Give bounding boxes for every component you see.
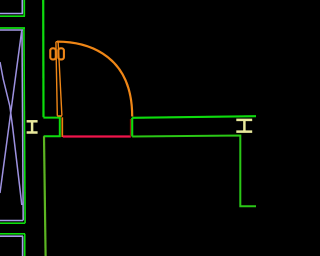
curtain wall glazing line (purple) top-left vertical <box>21 0 23 14</box>
steel column I-beam left <box>27 121 38 132</box>
wall line (green) second horizontal <box>0 27 25 29</box>
wall line (green) bottom vertical <box>24 234 26 256</box>
door swing arc (orange) <box>57 42 132 117</box>
shaft cross-brace diagonal B (purple) <box>0 30 22 193</box>
glazing mullion (purple) long vertical rail <box>22 30 23 221</box>
main wall (green) upper vertical <box>42 0 44 117</box>
glazing line (purple) bottom horizontal lower <box>0 235 23 237</box>
wall line (green) top-left vertical <box>23 0 25 16</box>
lower wall (yellow-green) vertical <box>44 136 46 256</box>
glazing head line (purple) horizontal <box>0 13 23 15</box>
wall line (green) long vertical rail <box>24 28 25 223</box>
wall (green) top horizontal to right edge <box>132 116 256 118</box>
door frame jamb (orange) left of opening <box>61 117 63 137</box>
door jamb recess box (green): top, right, bottom <box>43 118 59 137</box>
door leaf (orange, slightly splayed double line with end caps) <box>56 42 62 116</box>
shaft cross-brace diagonal A (purple) <box>0 62 22 205</box>
door threshold line (crimson) <box>63 135 131 137</box>
glazing line (purple) bottom horizontal upper <box>0 220 23 222</box>
glazing mullion (purple) bottom vertical <box>22 236 24 256</box>
glazing sill line (purple) second horizontal <box>0 29 23 31</box>
wall line (green) bottom horizontal lower <box>0 233 25 235</box>
door hardware symbol left half (orange rounded square) <box>50 48 56 59</box>
steel column I-beam right <box>236 120 252 132</box>
wall line (green) bottom horizontal upper <box>0 222 25 224</box>
door frame jamb (dark red) right of opening <box>130 119 132 136</box>
wall (yellow-green) bottom horizontal, corner and stub <box>132 136 256 207</box>
door hardware symbol right half (orange rounded square) <box>58 48 64 59</box>
wall line (green) horizontal below glazing head <box>0 15 25 17</box>
wall corner (green) right of opening: vertical <box>131 118 133 137</box>
